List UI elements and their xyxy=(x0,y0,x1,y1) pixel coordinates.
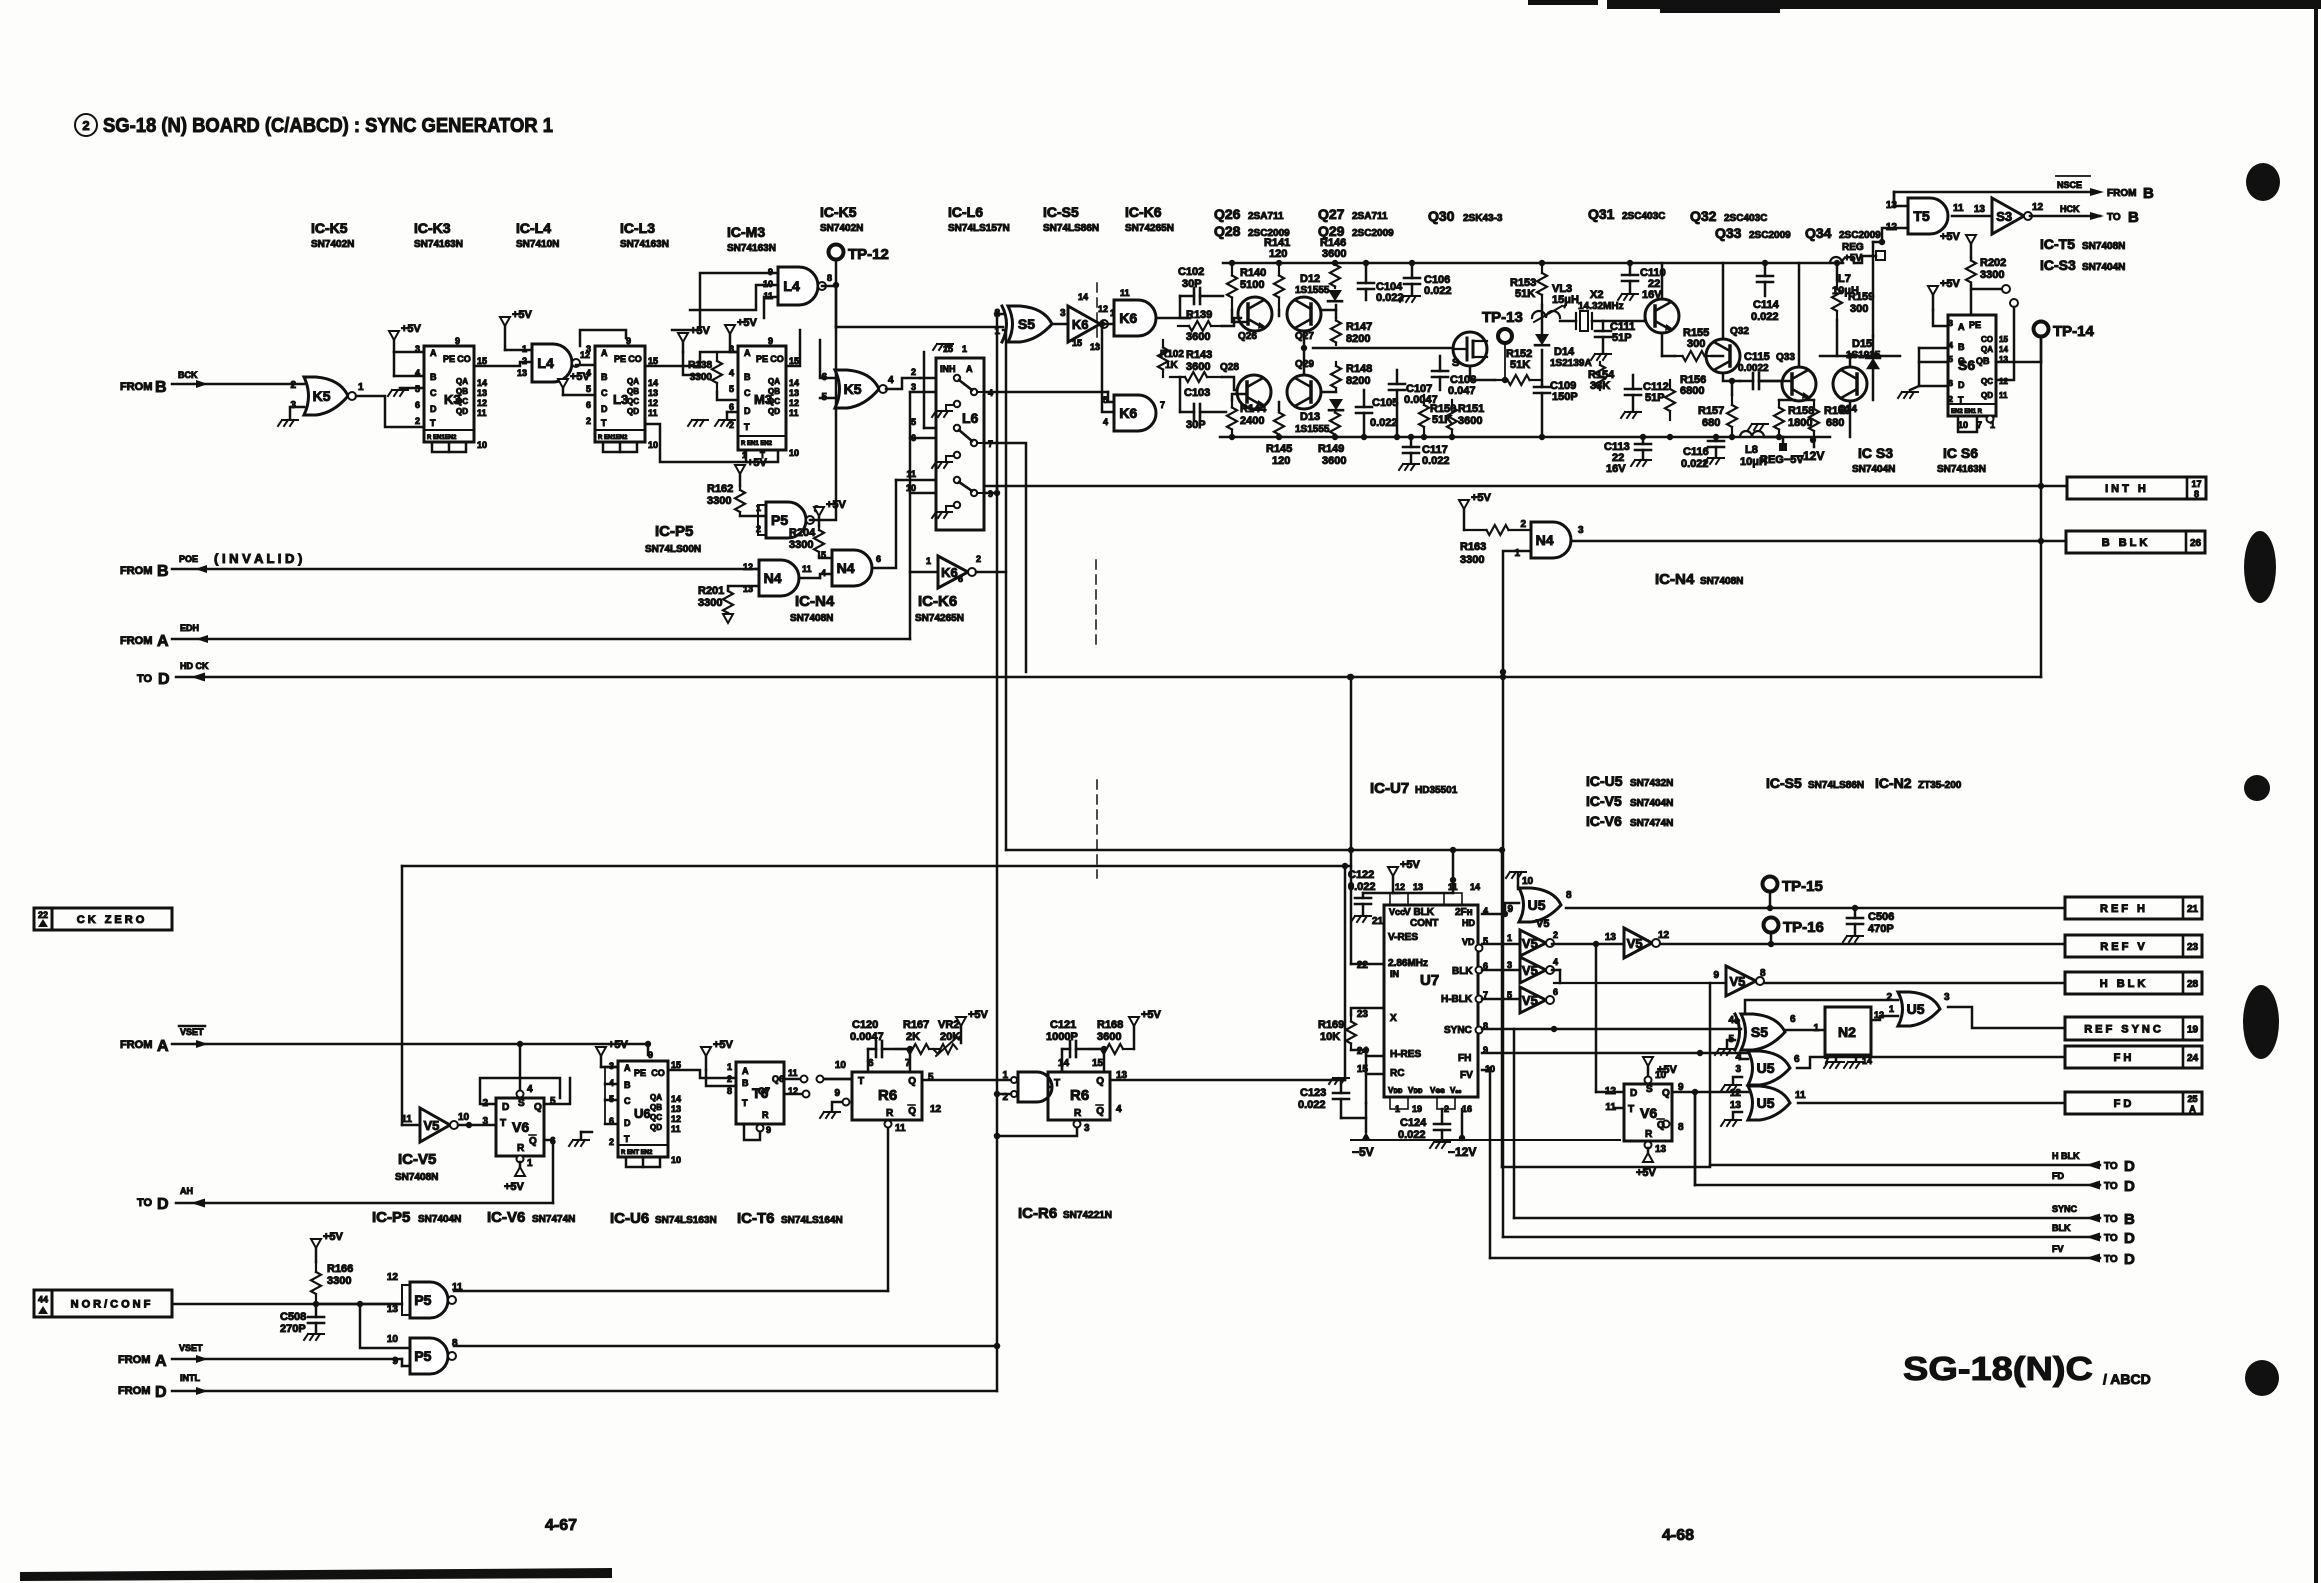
svg-text:3: 3 xyxy=(290,400,296,411)
svg-text:QC: QC xyxy=(650,1113,662,1122)
svg-text:+5V: +5V xyxy=(570,371,591,383)
svg-text:REF V: REF V xyxy=(2100,941,2147,953)
svg-text:1: 1 xyxy=(1507,933,1512,943)
svg-text:U5: U5 xyxy=(1907,1001,1925,1017)
svg-text:2SC2009: 2SC2009 xyxy=(1749,230,1791,241)
svg-text:+5V: +5V xyxy=(737,317,758,329)
IC V6 flip-flop 2 xyxy=(1624,1084,1672,1141)
svg-text:13: 13 xyxy=(1090,342,1100,352)
svg-text:2SC403C: 2SC403C xyxy=(1724,213,1767,224)
test point TP-16 xyxy=(1764,918,1779,933)
svg-text:S6: S6 xyxy=(1958,357,1975,373)
svg-text:B BLK: B BLK xyxy=(2102,537,2151,549)
svg-text:L4: L4 xyxy=(783,278,800,294)
test point TP-13 xyxy=(1498,329,1512,343)
svg-text:Q: Q xyxy=(908,1106,916,1117)
svg-text:2: 2 xyxy=(1886,992,1892,1003)
svg-text:EN2 EN1 R: EN2 EN1 R xyxy=(1951,409,1983,415)
svg-text:R: R xyxy=(886,1108,894,1119)
svg-text:C506: C506 xyxy=(1868,911,1894,923)
svg-text:3600: 3600 xyxy=(1186,361,1210,373)
wire L4 NAND out xyxy=(822,285,836,288)
svg-text:+5V: +5V xyxy=(826,499,847,511)
IC L6 mux xyxy=(936,358,984,530)
wire V5 to REF V xyxy=(1552,943,1624,946)
wire T5 to S3 xyxy=(1952,215,1992,218)
svg-text:BLK: BLK xyxy=(1452,966,1473,977)
connector CK ZERO 22A xyxy=(34,908,52,930)
svg-text:IC-N2: IC-N2 xyxy=(1875,775,1912,791)
svg-text:CO: CO xyxy=(651,1068,665,1078)
svg-text:HCK: HCK xyxy=(2060,204,2080,214)
svg-text:QD: QD xyxy=(627,407,639,416)
gate V5 inv 1 xyxy=(1520,930,1546,956)
svg-text:6: 6 xyxy=(586,400,591,410)
svg-text:51P: 51P xyxy=(1612,332,1632,344)
wire SYNC to S5 xyxy=(1482,1028,1741,1031)
svg-text:IC-V6: IC-V6 xyxy=(1586,813,1622,829)
svg-text:Q: Q xyxy=(534,1102,542,1113)
resistor R150 xyxy=(1423,395,1425,405)
gate K5 NOR 1 xyxy=(304,377,348,415)
connector INT H 17/8 xyxy=(2067,477,2206,499)
svg-text:13: 13 xyxy=(517,368,527,378)
resistor R149 xyxy=(1334,410,1336,413)
power +5V S6 xyxy=(1928,286,1938,295)
svg-text:R159: R159 xyxy=(1848,291,1874,303)
svg-text:2SC2009: 2SC2009 xyxy=(1839,230,1881,241)
svg-text:N4: N4 xyxy=(837,560,855,576)
svg-text:R160: R160 xyxy=(1824,405,1850,417)
svg-text:R145: R145 xyxy=(1266,443,1292,455)
svg-text:PE: PE xyxy=(1969,320,1981,330)
svg-text:V5: V5 xyxy=(1536,918,1549,930)
wire S6 bottom xyxy=(1958,416,1977,432)
svg-text:Q34: Q34 xyxy=(1805,225,1832,241)
svg-text:SN74163N: SN74163N xyxy=(414,239,463,250)
svg-text:PE: PE xyxy=(756,354,768,364)
svg-text:D: D xyxy=(1630,1088,1637,1099)
svg-text:Vₛₛ: Vₛₛ xyxy=(1450,1086,1461,1095)
svg-text:13: 13 xyxy=(1413,882,1423,892)
svg-text:16: 16 xyxy=(1462,1104,1472,1114)
resistor R140 xyxy=(1231,263,1233,276)
ground C106 xyxy=(1400,296,1420,302)
svg-text:3: 3 xyxy=(1578,525,1584,536)
svg-text:C120: C120 xyxy=(852,1019,878,1031)
svg-text:12: 12 xyxy=(1999,377,2008,386)
ground C117 xyxy=(1399,464,1419,470)
svg-text:R143: R143 xyxy=(1186,349,1212,361)
connector FD 25/A xyxy=(2065,1092,2202,1114)
wire INT H bus xyxy=(986,485,2067,488)
svg-text:+5V: +5V xyxy=(713,1039,734,1051)
svg-text:L8: L8 xyxy=(1745,444,1758,456)
svg-text:TP-16: TP-16 xyxy=(1783,919,1824,936)
svg-text:A: A xyxy=(430,348,437,358)
gate S5 XOR xyxy=(1008,306,1052,342)
svg-text:R6: R6 xyxy=(878,1087,897,1104)
svg-text:0.047: 0.047 xyxy=(1448,385,1476,397)
svg-text:S3: S3 xyxy=(1996,209,2012,224)
svg-text:3: 3 xyxy=(1060,308,1066,319)
svg-text:C: C xyxy=(601,388,608,398)
wire T5 pin12 feed xyxy=(1882,228,1908,242)
capacitor C108 xyxy=(1432,370,1448,373)
svg-text:+5V: +5V xyxy=(512,309,533,321)
svg-text:3600: 3600 xyxy=(1322,455,1346,467)
svg-text:IN: IN xyxy=(1390,969,1399,979)
svg-text:Q27: Q27 xyxy=(1318,206,1345,222)
svg-text:3300: 3300 xyxy=(698,597,722,609)
capacitor C106 xyxy=(1404,277,1420,280)
test point TP-15 xyxy=(1763,877,1778,892)
svg-text:11: 11 xyxy=(648,408,658,418)
svg-text:IC-N4: IC-N4 xyxy=(1655,571,1695,588)
svg-text:17: 17 xyxy=(2191,479,2201,489)
svg-text:U5: U5 xyxy=(1757,1060,1775,1076)
svg-text:2: 2 xyxy=(976,554,981,564)
svg-text:10: 10 xyxy=(671,1155,681,1165)
wire S6 left feeds xyxy=(1933,310,1948,326)
gate T5 AND xyxy=(1908,198,1948,234)
capacitor C506 xyxy=(1847,917,1863,920)
svg-text:15: 15 xyxy=(671,1060,681,1070)
svg-text:10: 10 xyxy=(1958,420,1968,430)
svg-text:FROM: FROM xyxy=(120,565,152,577)
svg-text:C: C xyxy=(624,1096,631,1106)
transistor Q29 xyxy=(1287,375,1321,409)
svg-text:15: 15 xyxy=(1999,335,2008,344)
svg-text:R158: R158 xyxy=(1788,405,1814,417)
svg-text:V6: V6 xyxy=(1640,1105,1657,1121)
wire analog top rail xyxy=(1223,262,1843,265)
svg-text:6: 6 xyxy=(876,554,881,564)
svg-text:Q28: Q28 xyxy=(1214,223,1241,239)
svg-text:( I N V A L I D ): ( I N V A L I D ) xyxy=(214,551,302,566)
power +5V L3 xyxy=(558,379,568,388)
wire N4-3 pin1 xyxy=(1503,551,1531,1237)
svg-text:3: 3 xyxy=(482,1116,488,1127)
svg-text:FV: FV xyxy=(2052,1244,2064,1254)
gate P5 NAND 1 xyxy=(766,502,806,538)
svg-text:SG-18 (N) BOARD (C/ABCD) : SY: SG-18 (N) BOARD (C/ABCD) : SYNC GENERATO… xyxy=(103,115,553,137)
ground M3 1 xyxy=(688,420,708,426)
capacitor C104 xyxy=(1358,282,1374,285)
svg-text:5: 5 xyxy=(586,384,591,394)
svg-text:QD: QD xyxy=(456,407,468,416)
svg-text:9: 9 xyxy=(1713,970,1719,981)
svg-text:11: 11 xyxy=(477,408,487,418)
svg-text:2: 2 xyxy=(586,416,591,426)
wire analog mid rail xyxy=(1313,347,1452,350)
transistor Q33 xyxy=(1782,367,1816,401)
wire hdck junction xyxy=(1500,669,1506,675)
svg-text:B: B xyxy=(2128,209,2139,226)
svg-text:C103: C103 xyxy=(1184,387,1210,399)
svg-text:13: 13 xyxy=(1655,1144,1667,1155)
resistor R166 xyxy=(311,1239,321,1248)
svg-text:3300: 3300 xyxy=(789,539,813,551)
svg-text:2K: 2K xyxy=(906,1031,920,1043)
svg-text:Q30: Q30 xyxy=(1428,208,1455,224)
svg-text:FROM: FROM xyxy=(120,381,152,393)
gate U5 OR 4 xyxy=(1748,1051,1790,1085)
svg-text:QD: QD xyxy=(650,1123,662,1132)
svg-text:QA: QA xyxy=(627,377,639,386)
svg-text:5: 5 xyxy=(1949,355,1954,364)
svg-text:A: A xyxy=(1958,322,1965,332)
svg-text:8: 8 xyxy=(2194,489,2199,499)
svg-text:+5V: +5V xyxy=(1400,859,1421,871)
svg-text:BCK: BCK xyxy=(178,370,198,380)
svg-text:28: 28 xyxy=(2187,979,2199,990)
resistor R157 xyxy=(1731,395,1733,405)
IC U7 xyxy=(1384,905,1478,1097)
svg-text:8: 8 xyxy=(1678,1122,1684,1133)
svg-text:A: A xyxy=(601,348,608,358)
svg-text:QC: QC xyxy=(768,397,780,406)
wire net x997 vertical xyxy=(996,314,999,1391)
svg-text:D: D xyxy=(157,1196,169,1213)
wire Q31 xyxy=(1644,316,1647,321)
wire vertical TP-14 bus xyxy=(2040,336,2043,677)
svg-text:REG−5V: REG−5V xyxy=(1760,454,1804,466)
svg-text:R166: R166 xyxy=(327,1263,353,1275)
svg-text:15: 15 xyxy=(1092,1058,1104,1069)
svg-text:VR2: VR2 xyxy=(938,1019,959,1031)
svg-text:2: 2 xyxy=(1520,519,1526,530)
svg-text:120: 120 xyxy=(1269,248,1287,260)
svg-text:FV: FV xyxy=(1460,1070,1473,1081)
binder hole dot 2 xyxy=(2244,531,2276,603)
svg-text:12: 12 xyxy=(671,1114,681,1124)
svg-text:V5: V5 xyxy=(1522,993,1538,1008)
svg-text:FROM: FROM xyxy=(120,635,152,647)
svg-text:1000P: 1000P xyxy=(1046,1031,1078,1043)
svg-text:IC-M3: IC-M3 xyxy=(727,224,765,240)
svg-text:2: 2 xyxy=(609,1137,614,1147)
svg-text:5: 5 xyxy=(729,384,734,394)
svg-text:REG: REG xyxy=(1842,242,1864,253)
IC U6 counter xyxy=(618,1061,668,1157)
svg-text:3: 3 xyxy=(1944,992,1950,1003)
svg-text:SN7404N: SN7404N xyxy=(418,1214,461,1225)
wire T6 to R6-1 xyxy=(824,1078,852,1081)
wire K5 out to K3 xyxy=(356,396,424,427)
svg-text:TO: TO xyxy=(2104,1214,2118,1225)
wire TP-12 stem xyxy=(835,259,838,327)
capacitor C114 xyxy=(1757,275,1773,278)
svg-text:Vᴅᴅ: Vᴅᴅ xyxy=(1388,1086,1403,1095)
svg-text:PE: PE xyxy=(634,1068,646,1078)
svg-text:IC-L4: IC-L4 xyxy=(516,220,551,236)
svg-text:7: 7 xyxy=(1160,400,1165,410)
svg-text:3: 3 xyxy=(586,344,591,354)
resistor R141 xyxy=(1278,263,1280,276)
svg-text:Q6: Q6 xyxy=(772,1074,784,1084)
power +5V K3 xyxy=(389,331,399,340)
svg-text:2: 2 xyxy=(1949,395,1954,404)
svg-text:4: 4 xyxy=(1949,341,1954,350)
transistor Q30 FET xyxy=(1453,332,1487,366)
svg-text:D: D xyxy=(1958,380,1965,390)
svg-text:T: T xyxy=(500,1118,506,1129)
svg-text:SN74LS164N: SN74LS164N xyxy=(781,1215,843,1226)
svg-text:TO: TO xyxy=(2104,1254,2118,1265)
svg-text:51K: 51K xyxy=(1515,288,1535,300)
wire C120 to R6 xyxy=(867,1061,870,1072)
svg-text:B: B xyxy=(744,372,751,382)
svg-text:Q: Q xyxy=(529,1136,537,1147)
svg-text:QB: QB xyxy=(650,1103,662,1112)
svg-text:2: 2 xyxy=(911,367,916,377)
wire S6 strap circles xyxy=(1970,285,1973,315)
svg-text:IC-T6: IC-T6 xyxy=(737,1210,775,1227)
svg-text:VSET: VSET xyxy=(179,1343,203,1353)
svg-text:IC-L3: IC-L3 xyxy=(620,220,655,236)
svg-text:B: B xyxy=(1958,342,1965,352)
svg-text:10: 10 xyxy=(458,1112,470,1123)
svg-text:12: 12 xyxy=(648,398,658,408)
wire N4 chain xyxy=(799,577,820,580)
svg-text:C508: C508 xyxy=(280,1311,306,1323)
svg-text:1S2139A: 1S2139A xyxy=(1550,358,1592,369)
svg-text:15: 15 xyxy=(477,356,487,366)
svg-text:1: 1 xyxy=(926,556,931,566)
svg-text:SN7402N: SN7402N xyxy=(820,223,863,234)
svg-text:10: 10 xyxy=(835,1060,847,1071)
svg-text:SN74163N: SN74163N xyxy=(1937,464,1986,475)
svg-text:10: 10 xyxy=(1655,1070,1667,1081)
svg-text:22: 22 xyxy=(1357,960,1369,971)
gate S3 buffer xyxy=(1992,198,2024,234)
svg-text:26: 26 xyxy=(2190,538,2202,549)
svg-text:TO: TO xyxy=(137,1197,153,1209)
svg-text:U5: U5 xyxy=(1757,1095,1775,1111)
wire frame vertical x1502 xyxy=(1501,850,1504,1167)
svg-text:1: 1 xyxy=(358,382,364,393)
svg-text:12: 12 xyxy=(743,562,753,572)
svg-text:SN7408N: SN7408N xyxy=(2082,241,2125,252)
resistor R202 xyxy=(1966,235,1976,244)
resistor R162 xyxy=(735,465,745,474)
svg-text:6: 6 xyxy=(958,574,963,584)
svg-text:Q33: Q33 xyxy=(1715,225,1742,241)
gate P5 NAND bottom 2 xyxy=(410,1338,448,1374)
wire N2 to U5 xyxy=(1871,1016,1898,1020)
svg-text:K6: K6 xyxy=(941,565,958,580)
wire K6and1 out xyxy=(1158,317,1190,320)
resistor R147 xyxy=(1335,318,1337,321)
svg-text:C105: C105 xyxy=(1372,397,1398,409)
svg-text:15: 15 xyxy=(789,356,799,366)
svg-text:470P: 470P xyxy=(1868,923,1894,935)
svg-text:D: D xyxy=(158,671,170,688)
connector FH 24 xyxy=(2065,1046,2202,1068)
svg-text:3: 3 xyxy=(1507,960,1512,970)
svg-text:SN74LS157N: SN74LS157N xyxy=(948,223,1010,234)
svg-text:D: D xyxy=(2124,1158,2135,1175)
svg-text:12: 12 xyxy=(1395,882,1405,892)
svg-text:R144: R144 xyxy=(1240,403,1267,415)
svg-text:Q27: Q27 xyxy=(1295,331,1314,342)
svg-text:4: 4 xyxy=(1116,1104,1122,1115)
svg-text:4: 4 xyxy=(1728,1015,1734,1026)
svg-text:1: 1 xyxy=(1002,1070,1008,1081)
svg-text:T: T xyxy=(858,1076,864,1087)
svg-text:2SC403C: 2SC403C xyxy=(1622,211,1665,222)
svg-text:V5: V5 xyxy=(1729,974,1745,989)
wire FH bus xyxy=(1797,1057,2065,1068)
svg-text:Q28: Q28 xyxy=(1220,362,1239,373)
svg-text:QC: QC xyxy=(627,397,639,406)
svg-text:SN7474N: SN7474N xyxy=(1630,818,1673,829)
svg-text:270P: 270P xyxy=(280,1323,306,1335)
svg-text:CO: CO xyxy=(457,354,471,364)
svg-text:CO: CO xyxy=(770,354,784,364)
wire U7 power top xyxy=(1393,892,1399,895)
svg-text:IC-V5: IC-V5 xyxy=(1586,793,1622,809)
gate V5 inv 2 xyxy=(1520,957,1546,983)
svg-text:11: 11 xyxy=(802,564,812,574)
svg-text:R149: R149 xyxy=(1318,443,1344,455)
svg-text:C116: C116 xyxy=(1683,446,1709,458)
binder hole dot 5 xyxy=(2245,1360,2279,1396)
svg-text:SN7404N: SN7404N xyxy=(1852,464,1895,475)
ground U5 pin10 xyxy=(1506,872,1526,878)
wire VSET to U6 top xyxy=(645,1041,651,1047)
svg-text:+5V: +5V xyxy=(1940,278,1961,290)
capacitor C109 xyxy=(1534,386,1550,389)
svg-text:2400: 2400 xyxy=(1240,415,1264,427)
svg-text:FROM: FROM xyxy=(2107,188,2136,199)
svg-text:A: A xyxy=(742,1066,749,1076)
svg-text:14: 14 xyxy=(1470,882,1480,892)
svg-text:+5V: +5V xyxy=(747,457,768,469)
svg-text:QA: QA xyxy=(768,377,780,386)
svg-text:CO: CO xyxy=(628,354,642,364)
svg-text:V5: V5 xyxy=(423,1118,439,1133)
svg-text:R148: R148 xyxy=(1346,363,1372,375)
svg-text:12: 12 xyxy=(1730,1088,1742,1099)
svg-text:R EN1EN2: R EN1EN2 xyxy=(427,435,457,441)
svg-text:4: 4 xyxy=(888,375,894,386)
wire V5 inv in xyxy=(402,1124,420,1127)
svg-text:QB: QB xyxy=(456,387,468,396)
svg-text:4: 4 xyxy=(1103,417,1108,427)
svg-text:2: 2 xyxy=(415,416,420,426)
wire R6-2 R down xyxy=(997,1128,1077,1136)
svg-text:0.022: 0.022 xyxy=(1348,881,1376,893)
svg-text:1: 1 xyxy=(1514,548,1520,559)
svg-text:X: X xyxy=(1390,1013,1397,1024)
svg-text:SN74265N: SN74265N xyxy=(1125,223,1174,234)
power +5V VR2 xyxy=(956,1017,966,1026)
binder hole dot 1 xyxy=(2246,163,2280,201)
svg-text:L4: L4 xyxy=(537,355,554,371)
svg-text:B: B xyxy=(155,379,167,396)
svg-text:4: 4 xyxy=(729,368,734,378)
svg-text:TO: TO xyxy=(2104,1161,2118,1172)
resistor R156 xyxy=(1669,380,1671,389)
svg-text:13: 13 xyxy=(789,388,799,398)
svg-text:QC: QC xyxy=(1981,377,1993,386)
svg-text:T: T xyxy=(430,418,436,428)
svg-text:R ENT EN2: R ENT EN2 xyxy=(621,1150,653,1156)
svg-text:Q32: Q32 xyxy=(1730,326,1749,337)
wire K6 to and xyxy=(1106,323,1114,326)
